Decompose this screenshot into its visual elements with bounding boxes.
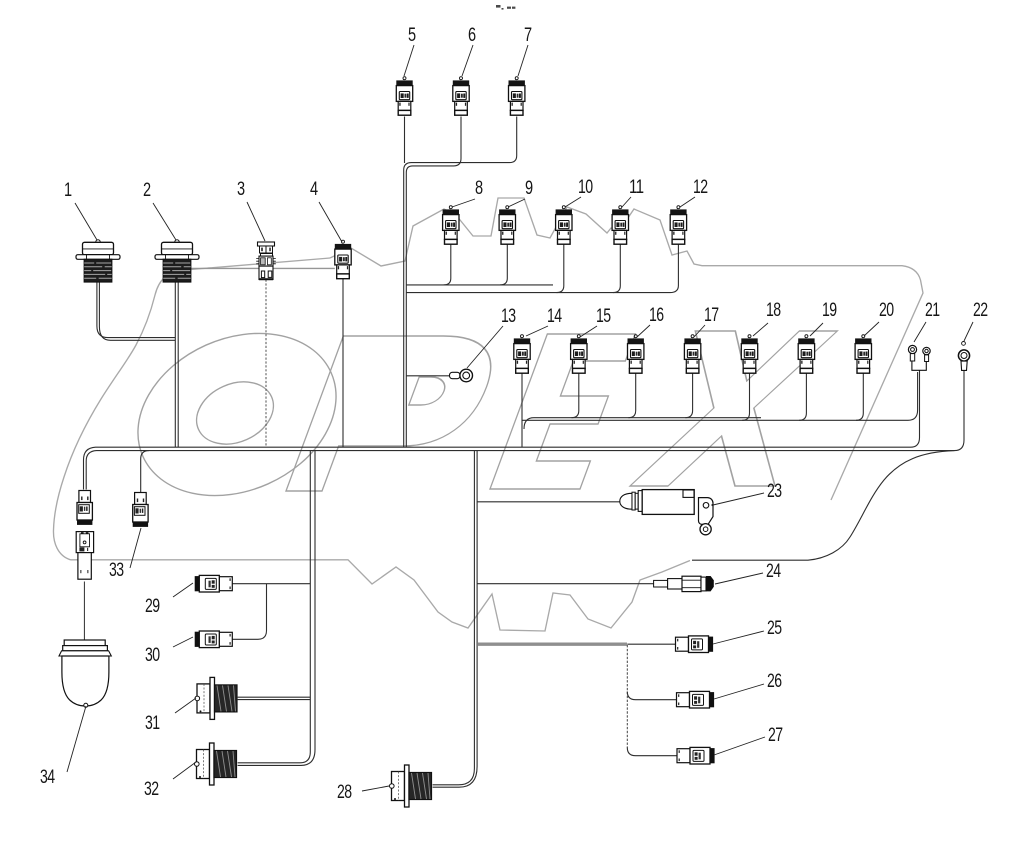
ring terminal 13 xyxy=(450,369,473,382)
connector 1 xyxy=(76,240,120,282)
wire: ring22 lead down to trunk xyxy=(955,371,965,451)
svg-text:21: 21 xyxy=(925,299,940,321)
wire: 33 lower assembly to bell34 xyxy=(83,582,85,640)
wire: conn31 pair to branch trunk xyxy=(238,697,311,699)
connector 5 xyxy=(396,77,412,116)
svg-text:31: 31 xyxy=(145,712,160,734)
wire: connector1 drop pair to junction xyxy=(97,282,175,338)
svg-text:32: 32 xyxy=(144,778,159,800)
svg-text:24: 24 xyxy=(766,560,781,582)
wire: conn16 drop xyxy=(628,374,635,418)
svg-text:23: 23 xyxy=(767,480,782,502)
wire: conn29 line to branch trunk xyxy=(232,583,310,585)
circular connector 31 xyxy=(195,677,237,719)
connector 16 xyxy=(628,335,644,374)
connector 30 xyxy=(195,631,233,648)
tiny reference marks top xyxy=(496,5,515,10)
connector 3 xyxy=(256,242,276,280)
solenoid actuator 23 xyxy=(620,490,713,535)
svg-text:10: 10 xyxy=(578,176,593,198)
connector 29 xyxy=(195,575,233,592)
wire: conn25 link xyxy=(627,643,675,645)
svg-text:11: 11 xyxy=(629,176,644,198)
wire: conn7 drop joining bundle line a xyxy=(404,117,517,448)
svg-text:8: 8 xyxy=(475,177,483,199)
connector 9 xyxy=(499,206,515,245)
svg-text:34: 34 xyxy=(40,766,55,788)
connector 17 xyxy=(684,335,700,374)
wire: conn18 drop xyxy=(742,374,749,421)
connector 20 xyxy=(855,335,871,374)
svg-text:20: 20 xyxy=(879,299,894,321)
33 lower mating connector xyxy=(76,532,93,580)
wire: conn10 drop xyxy=(557,245,564,293)
svg-text:29: 29 xyxy=(145,595,160,617)
wire: ring21 lead down to trunk xyxy=(911,371,920,448)
wire: conn14 drop to trunk xyxy=(521,374,523,448)
connector 33 right unit xyxy=(133,493,148,527)
connector 6 xyxy=(453,77,469,116)
wire: connector4 drop xyxy=(342,279,344,448)
svg-text:4: 4 xyxy=(310,178,318,200)
connector 25 xyxy=(676,636,714,653)
svg-text:3: 3 xyxy=(237,178,245,200)
svg-text:12: 12 xyxy=(693,176,708,198)
connector 14 xyxy=(514,335,530,374)
wire: main trunk lower line xyxy=(86,451,954,490)
inline fuse holder 24 xyxy=(654,576,714,592)
svg-text:6: 6 xyxy=(468,24,476,46)
wire: conn9 drop xyxy=(500,245,507,285)
wire: fuse24 lead xyxy=(478,583,655,585)
wire: conn27 link xyxy=(627,748,677,756)
connector 27 xyxy=(677,747,715,764)
svg-text:30: 30 xyxy=(145,644,160,666)
connector 8 xyxy=(443,206,459,245)
wire: bundle 8-12 lower line with conn12 drop xyxy=(407,245,679,293)
connector 7 xyxy=(509,77,525,116)
circular connector 32 xyxy=(195,743,237,785)
svg-text:7: 7 xyxy=(524,24,532,46)
ring terminal 22 xyxy=(958,342,969,371)
svg-text:16: 16 xyxy=(649,304,664,326)
connector 4 xyxy=(335,240,351,279)
connector 19 xyxy=(798,335,814,374)
svg-text:26: 26 xyxy=(767,670,782,692)
wire: drop to right 33 unit xyxy=(141,451,149,492)
wire: conn11 drop xyxy=(613,245,620,293)
wire: sweep from trunk right end to 25-27 bundle xyxy=(692,451,955,561)
svg-text:25: 25 xyxy=(767,617,782,639)
svg-text:14: 14 xyxy=(547,305,562,327)
wire: branch trunk x310 with elbow to conn32 xyxy=(238,451,311,763)
connector 26 xyxy=(677,691,715,708)
wire: solenoid23 lead xyxy=(478,501,621,503)
wire: branch trunk x475 down with elbow to conn28 xyxy=(433,451,475,785)
circular connector 28 xyxy=(390,765,432,807)
wire: branch down to conn30 xyxy=(232,584,266,640)
svg-text:18: 18 xyxy=(766,299,781,321)
svg-text:17: 17 xyxy=(704,304,719,326)
svg-text:5: 5 xyxy=(408,24,416,46)
wire: main trunk upper line xyxy=(84,447,911,489)
svg-text:13: 13 xyxy=(501,305,516,327)
wire: bundle 14-20 upper line with left elbow xyxy=(524,418,761,429)
svg-text:2: 2 xyxy=(143,179,151,201)
fork terminals 21 xyxy=(908,345,930,370)
connector 11 xyxy=(612,206,628,245)
connector 15 xyxy=(571,335,587,374)
connector 10 xyxy=(556,206,572,245)
svg-text:19: 19 xyxy=(822,299,837,321)
connector 33 left unit xyxy=(77,491,92,525)
wire: conn6 drop joining bundle line b xyxy=(406,117,461,448)
wire: ring13 link to trunk xyxy=(407,375,450,377)
wire: conn20 drop xyxy=(856,374,863,421)
svg-text:15: 15 xyxy=(596,305,611,327)
wire: bundle 8-12 upper line xyxy=(407,284,554,286)
horn bell 34 xyxy=(59,640,111,707)
connector 2 xyxy=(155,240,199,282)
svg-text:28: 28 xyxy=(337,781,352,803)
wire: wrapped bundle to 25-27 xyxy=(478,643,627,646)
svg-text:33: 33 xyxy=(109,559,124,581)
wire: conn26 link xyxy=(627,692,676,700)
wire: conn19 drop xyxy=(799,374,806,421)
connector 12 xyxy=(670,206,686,245)
wire: gray link conn2 to conn3 to conn4 xyxy=(191,267,335,269)
svg-text:27: 27 xyxy=(768,724,783,746)
wire: conn5 drop xyxy=(404,117,406,164)
wire: connector2 drop pair to trunk xyxy=(174,282,176,447)
wire: conn15 drop xyxy=(572,374,579,418)
connector 18 xyxy=(741,335,757,374)
wire: conn8 drop xyxy=(444,245,451,285)
svg-text:1: 1 xyxy=(64,179,72,201)
svg-text:22: 22 xyxy=(973,299,988,321)
wire: connector3 drop xyxy=(265,280,267,448)
wire: riser for 26-27 xyxy=(626,645,628,748)
svg-text:9: 9 xyxy=(525,177,533,199)
wire: bundle 14-20 lower line rising to ring21 bracket xyxy=(522,372,918,420)
wire: conn17 drop xyxy=(685,374,692,418)
